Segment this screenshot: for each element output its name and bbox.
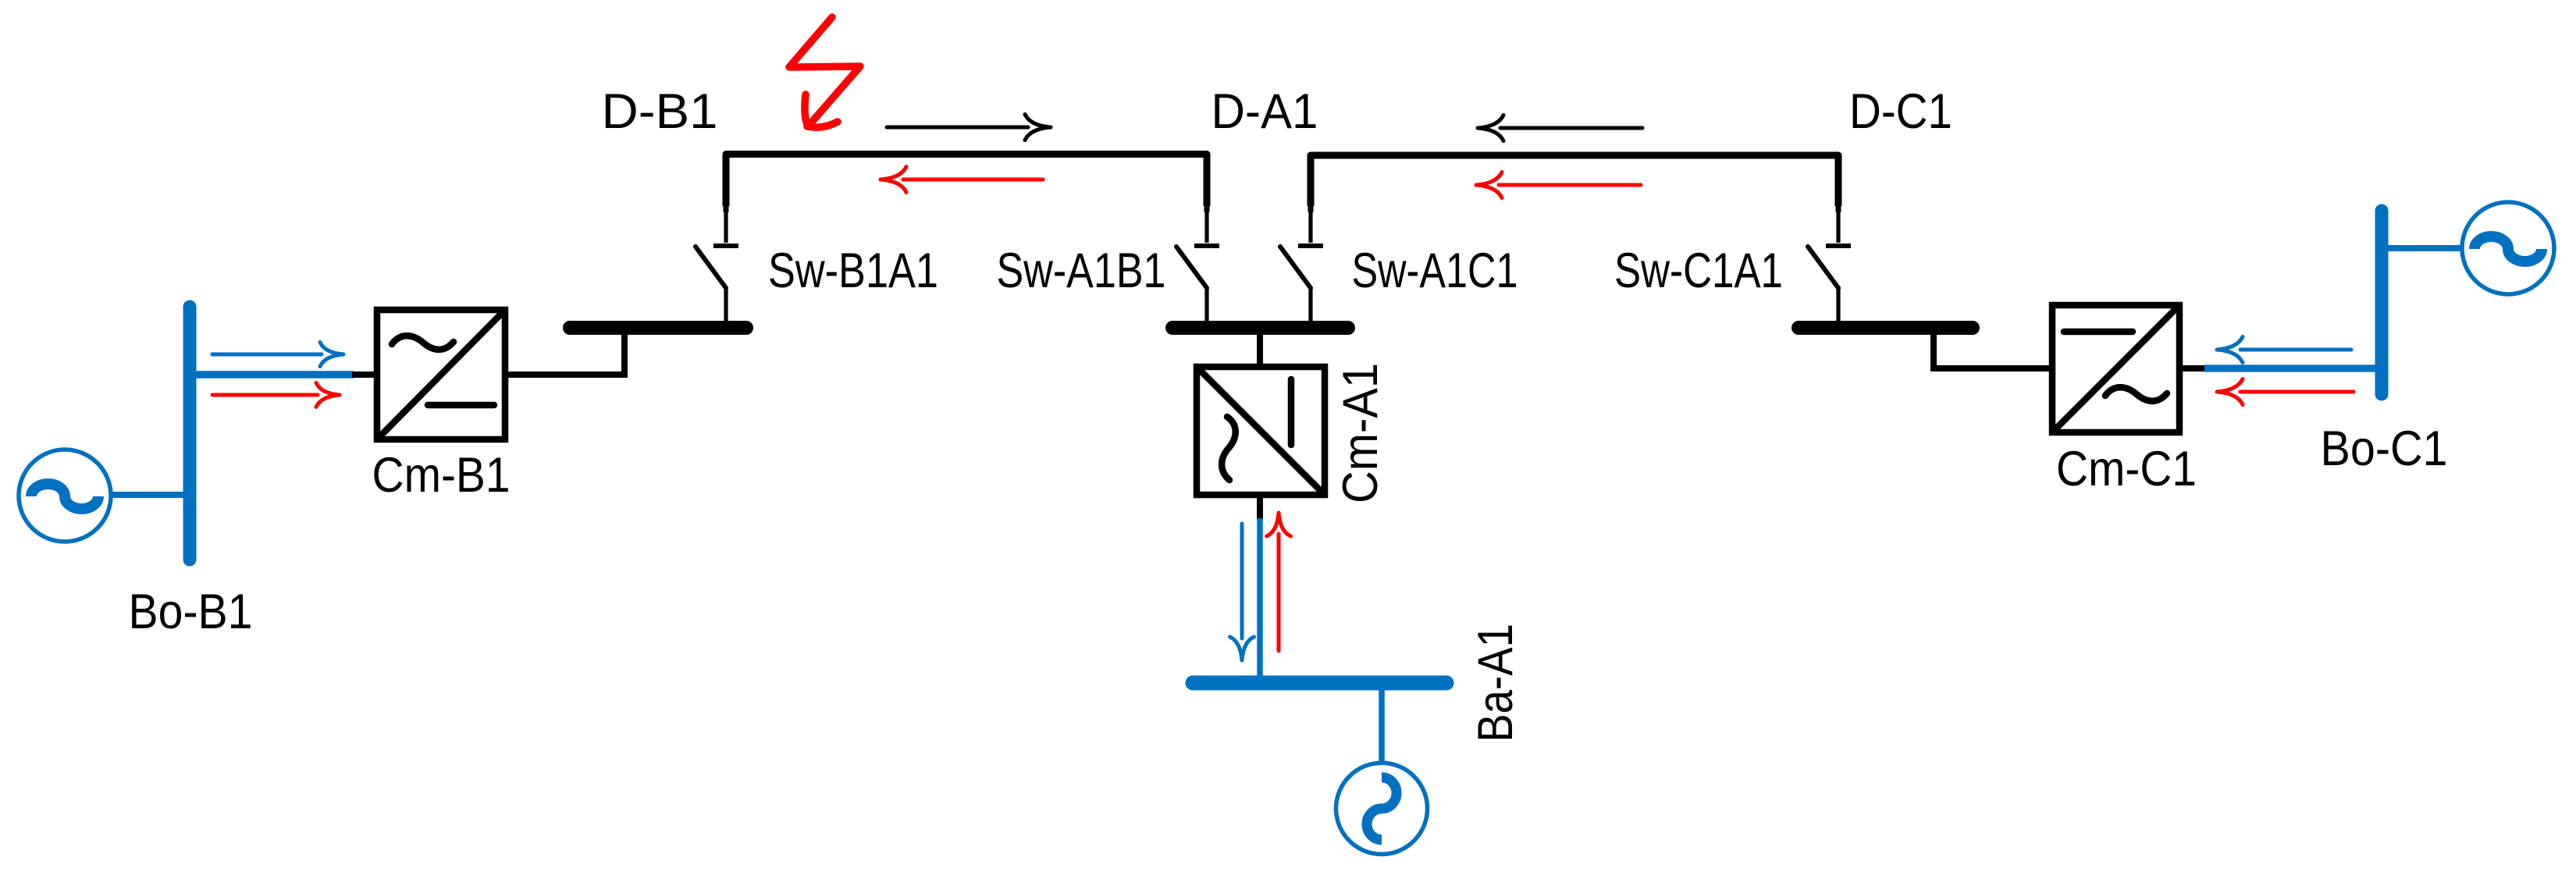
bus Bo-B1 (183, 307, 197, 560)
wire busbar C1 to Cm-C1 (1934, 332, 2053, 368)
svg-text:Cm-A1: Cm-A1 (1333, 363, 1388, 503)
arrow blue power flow Bo-B1 to Cm-B1 (212, 343, 343, 367)
wire stub into Cm-B1 (352, 372, 378, 378)
AC source at Ba-A1 (1336, 763, 1428, 855)
svg-text:Sw-A1C1: Sw-A1C1 (1352, 244, 1518, 298)
switch Sw-A1C1 (1280, 204, 1323, 322)
wire Ba-A1 to AC source (1379, 690, 1385, 766)
svg-text:Ba-A1: Ba-A1 (1468, 624, 1523, 742)
converter Cm-B1 (377, 310, 505, 439)
busbar B1 (570, 321, 746, 335)
AC-side symbol of Cm-A1 (1222, 417, 1236, 480)
DC-side symbol of Cm-C1 (2064, 329, 2133, 336)
svg-text:D-C1: D-C1 (1849, 84, 1952, 139)
DC-side symbol of Cm-A1 (1288, 379, 1295, 445)
wire Bo-B1 to Cm-B1 (AC side) (190, 371, 354, 379)
wire stub Cm-A1 to DC link (1257, 495, 1263, 520)
svg-text:Cm-B1: Cm-B1 (372, 448, 511, 503)
line D-B1 (726, 155, 1207, 207)
arrow black power flow on D-B1 (887, 115, 1051, 140)
wire source to Bo-B1 (110, 492, 190, 498)
svg-text:Sw-B1A1: Sw-B1A1 (768, 244, 938, 298)
DC-side symbol of Cm-B1 (428, 402, 494, 409)
wire busbar A1 to Cm-A1 (1257, 332, 1263, 368)
bus Bo-C1 (2375, 211, 2389, 394)
arrow red fault current Bo-B1 to Cm-B1 (212, 383, 340, 407)
svg-text:D-A1: D-A1 (1212, 84, 1318, 139)
fault lightning bolt on D-B1 (789, 17, 860, 127)
wire Cm-B1 to busbar B1 (505, 332, 624, 375)
arrow blue power flow Cm-A1 to Ba-A1 (1230, 524, 1254, 660)
switch Sw-B1A1 (696, 203, 738, 322)
AC-side symbol of Cm-C1 (2105, 387, 2167, 401)
arrow black power flow on D-C1 (1478, 116, 1642, 141)
wire Bo-C1 to AC source (2382, 245, 2464, 251)
busbar A1 (1172, 321, 1348, 335)
wire Cm-C1 to Bo-C1 (AC side) (2204, 364, 2382, 372)
svg-text:D-B1: D-B1 (602, 84, 718, 139)
switch Sw-A1B1 (1176, 204, 1219, 322)
svg-text:Cm-C1: Cm-C1 (2056, 442, 2197, 496)
bus Ba-A1 (1193, 676, 1446, 691)
arrow red fault current on D-B1 (881, 167, 1043, 193)
busbar C1 (1799, 321, 1973, 335)
arrow blue power flow Bo-C1 to Cm-C1 (2217, 337, 2351, 363)
line D-C1 (1311, 155, 1838, 206)
AC source at Bo-B1 (19, 450, 111, 542)
svg-text:Sw-A1B1: Sw-A1B1 (997, 244, 1166, 298)
AC source at Bo-C1 (2462, 202, 2554, 294)
svg-text:Sw-C1A1: Sw-C1A1 (1614, 244, 1783, 298)
wire Cm-A1 to bus Ba-A1 (1257, 518, 1263, 683)
svg-text:Bo-B1: Bo-B1 (129, 585, 253, 639)
svg-text:Bo-C1: Bo-C1 (2321, 421, 2448, 476)
arrow red fault current Ba-A1 to Cm-A1 (1267, 513, 1291, 651)
converter Cm-C1 (2052, 305, 2179, 432)
arrow red fault current on D-C1 (1476, 172, 1641, 198)
arrow red fault current Bo-C1 to Cm-C1 (2217, 379, 2354, 405)
converter Cm-A1 (1197, 367, 1325, 495)
switch Sw-C1A1 (1808, 204, 1851, 322)
AC-side symbol of Cm-B1 (392, 336, 454, 350)
wire stub out of Cm-C1 (2179, 365, 2206, 372)
